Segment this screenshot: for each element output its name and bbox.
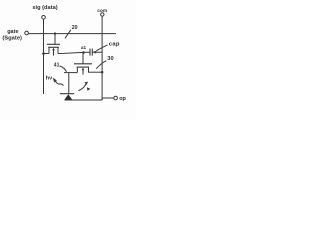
transistor T1 (switching TFT) <box>47 43 60 45</box>
svg-text:hν: hν <box>46 75 52 81</box>
wire down to EL element <box>68 73 70 94</box>
wire T2 source left <box>64 72 77 74</box>
wire com vertical line <box>101 16 103 100</box>
wire sig vertical line <box>43 19 45 94</box>
EL element diode triangle <box>65 94 73 99</box>
svg-text:(Sgate): (Sgate) <box>2 36 22 42</box>
svg-text:a1: a1 <box>81 45 87 50</box>
wire gate horizontal line <box>28 33 116 35</box>
wire jog to op <box>102 98 114 100</box>
wire T1 drain to node a1 <box>58 52 90 53</box>
node junction T2 drain / com <box>101 71 104 74</box>
label cap with leader <box>96 45 107 51</box>
terminal gate <box>25 31 29 35</box>
wire T2 drain right to com <box>89 71 103 73</box>
current arrow curved <box>78 84 86 91</box>
wire T1 gate vertical <box>54 34 56 45</box>
svg-text:cap: cap <box>109 41 120 47</box>
transistor T2 (driving TFT) <box>74 63 92 65</box>
node a1 junction <box>82 51 85 54</box>
node cap leader touch <box>94 51 96 53</box>
photon arrow <box>56 81 64 85</box>
svg-text:41: 41 <box>54 63 60 69</box>
node junction gate line to T1 gate <box>54 32 56 34</box>
terminal op <box>114 96 118 100</box>
node junction sig to T1 source <box>42 52 45 55</box>
wire cap to com line <box>92 51 102 53</box>
svg-text:gate: gate <box>7 29 18 35</box>
svg-text:20: 20 <box>72 25 78 31</box>
svg-text:sig (data): sig (data) <box>32 5 57 11</box>
capacitor cap <box>89 49 91 56</box>
terminal com <box>101 13 104 16</box>
svg-text:op: op <box>119 96 126 102</box>
EL element diode 41 cathode bar <box>60 93 74 95</box>
terminal sig <box>42 15 46 19</box>
wire T1 source <box>44 53 50 55</box>
wire EL anode bottom <box>65 99 103 101</box>
wire T2 gate from node a1 <box>82 53 84 64</box>
svg-text:30: 30 <box>107 56 113 62</box>
small mark F <box>87 87 91 91</box>
